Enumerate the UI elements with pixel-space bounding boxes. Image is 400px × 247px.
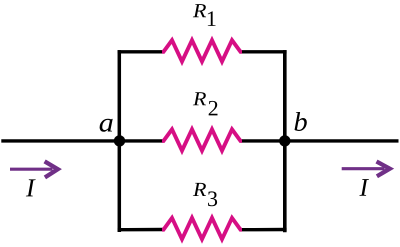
- label R1 subscript 1: [208, 11, 216, 26]
- arrow left current head: [45, 161, 58, 177]
- resistor R2: [162, 129, 242, 150]
- resistor R3: [162, 218, 242, 239]
- wire top branch right segment: [241, 50, 287, 53]
- wire main horizontal right lead: [241, 139, 399, 142]
- label R2 subscript 2: [209, 101, 218, 116]
- label node a: [100, 119, 113, 132]
- arrow left current shaft: [10, 168, 53, 171]
- wire bottom branch left segment: [118, 228, 163, 232]
- wire bottom branch right segment: [241, 228, 287, 232]
- resistor R1: [162, 40, 242, 61]
- arrow right current shaft: [342, 167, 385, 170]
- wire main horizontal left lead: [1, 139, 163, 142]
- label I right: [359, 179, 369, 196]
- wire top branch left segment: [118, 50, 163, 53]
- arrow right current head: [377, 162, 390, 177]
- label R3 subscript 3: [208, 191, 217, 206]
- label R1: [193, 4, 206, 17]
- label I left: [26, 179, 36, 196]
- wire right vertical (node b through branches): [283, 50, 287, 232]
- label R3: [193, 183, 206, 196]
- wire left vertical (node a through branches): [118, 50, 122, 232]
- node b junction dot: [279, 135, 290, 146]
- label node b: [295, 112, 307, 131]
- node a junction dot: [114, 135, 125, 146]
- label R2: [193, 92, 206, 105]
